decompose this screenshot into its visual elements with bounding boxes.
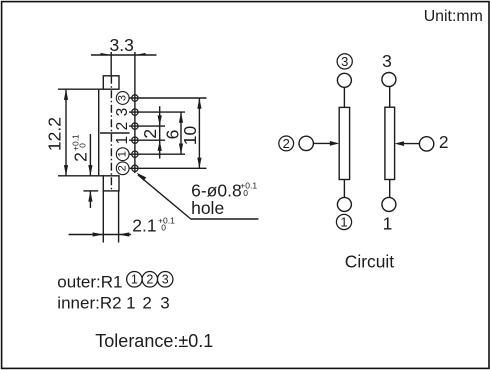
svg-text:3.3: 3.3 [110, 35, 134, 55]
svg-text:0: 0 [161, 223, 166, 233]
resistor R2 body [385, 107, 395, 179]
svg-text:3: 3 [341, 54, 348, 69]
note Tolerance [95, 331, 213, 351]
dim text 2 rotated [140, 129, 160, 139]
wiper wire R2 with arrow [395, 141, 420, 146]
note outer:R1 [57, 272, 173, 292]
svg-text:2: 2 [146, 272, 153, 286]
terminal circle R2 top [382, 73, 396, 87]
part left edge [98, 89, 100, 176]
svg-text:1: 1 [340, 215, 347, 230]
left leg [102, 191, 104, 243]
hole 1 crosshair [129, 137, 165, 143]
extension line left (centerline top) [110, 52, 112, 76]
wiper terminal circle R2 [419, 137, 433, 151]
hole 2 circled crosshair [129, 165, 207, 171]
svg-text:1: 1 [383, 213, 393, 233]
svg-text:1: 1 [131, 272, 138, 286]
svg-text:hole: hole [191, 198, 224, 218]
note 6-o0.8 hole [191, 181, 257, 218]
svg-text:1: 1 [126, 294, 135, 313]
svg-text:1: 1 [117, 151, 129, 157]
dim 2 holes line [158, 106, 162, 158]
dim 6 line [179, 112, 183, 154]
svg-text:3: 3 [114, 108, 131, 117]
bottom square lug hole [103, 176, 119, 191]
dim text 3.3 [110, 35, 134, 55]
dim text 6 rotated [163, 130, 183, 140]
terminal circle R1 bottom [337, 197, 351, 211]
resistor R1 body [339, 107, 349, 179]
label 1 rotated [114, 136, 131, 145]
dim 2 (+0.1/0) line lower [88, 191, 92, 208]
hole 1 circled crosshair [129, 151, 185, 157]
dim 2.1 dimension line [69, 232, 132, 236]
wiper terminal circle R1 [299, 136, 313, 150]
label 1 circled rotated [116, 148, 129, 161]
terminal label 3 circled [337, 54, 352, 69]
svg-text:2: 2 [439, 132, 449, 152]
dim 3.3 dimension line [91, 54, 157, 56]
dim text 12.2 rotated [45, 117, 65, 151]
right leg [118, 191, 120, 243]
svg-text:3: 3 [160, 294, 169, 313]
dim 12.2 dimension line [64, 89, 68, 176]
svg-text:12.2: 12.2 [45, 117, 65, 151]
svg-text:2: 2 [140, 129, 160, 139]
terminal label 1 [383, 213, 393, 233]
dim 2 extension tick [83, 190, 98, 192]
extension / hole column line [134, 52, 136, 173]
top square lug hole [103, 76, 119, 89]
terminal circle R2 bottom [382, 197, 396, 211]
hole 3 crosshair [129, 109, 185, 115]
svg-text:Circuit: Circuit [345, 252, 394, 272]
dim 3.3 right arrow [135, 53, 146, 56]
svg-text:0: 0 [78, 143, 88, 148]
svg-text:Tolerance:±0.1: Tolerance:±0.1 [95, 331, 213, 351]
svg-text:outer:R1: outer:R1 [57, 272, 122, 291]
note Circuit [345, 252, 394, 272]
dim 2 (+0.1/0) line upper [88, 134, 92, 176]
circuit [299, 73, 434, 212]
note inner:R2 1 2 3 [57, 294, 169, 313]
svg-text:2: 2 [117, 165, 129, 171]
dim text 2 +0.1/0 rotated [71, 134, 91, 162]
hole 2 crosshair [129, 123, 165, 129]
centerline horizontal tick [100, 132, 130, 134]
wire R1 bottom [343, 180, 345, 198]
svg-text:10: 10 [180, 126, 200, 146]
terminal label 2 [439, 132, 449, 152]
svg-text:2: 2 [283, 136, 290, 151]
label 3 circled rotated [116, 92, 129, 105]
svg-text:2: 2 [71, 152, 91, 162]
wire R2 top [389, 86, 391, 107]
note Unit:mm [424, 8, 483, 25]
svg-text:2: 2 [142, 294, 151, 313]
dim text 2.1 +0.1/0 [132, 216, 175, 236]
leader 6-o0.8 hole [136, 173, 258, 220]
dim text 10 rotated [180, 126, 200, 146]
wire R1 top [343, 87, 345, 107]
wiper wire R1 with arrow [313, 141, 339, 146]
svg-text:Unit:mm: Unit:mm [424, 8, 483, 25]
terminal label 1 circled [336, 214, 351, 229]
label 2 circled rotated [116, 162, 129, 175]
svg-text:3: 3 [117, 95, 129, 101]
wire R2 bottom [389, 180, 391, 198]
terminal label 3 [382, 51, 392, 71]
part bottom edge / 12.2 extension [58, 175, 103, 177]
hole 3 circled crosshair [129, 95, 207, 101]
terminal label 2 circled [279, 136, 294, 151]
svg-text:3: 3 [162, 272, 169, 286]
terminal circle R1 top [337, 73, 351, 87]
svg-text:1: 1 [114, 136, 131, 145]
label 2 rotated [114, 122, 131, 131]
label 3 rotated [114, 108, 131, 117]
part top edge / 12.2 extension [58, 88, 103, 90]
svg-text:3: 3 [382, 51, 392, 71]
svg-text:0: 0 [243, 188, 248, 198]
svg-text:inner:R2: inner:R2 [57, 294, 121, 313]
svg-text:2: 2 [114, 122, 131, 131]
svg-text:2.1: 2.1 [132, 216, 156, 236]
dim 10 line [197, 98, 201, 168]
dim 3.3 left arrow [101, 53, 112, 56]
centerline vertical dash-dot [110, 76, 112, 191]
